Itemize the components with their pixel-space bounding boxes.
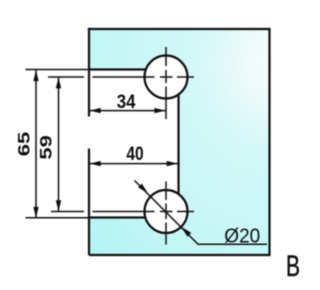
svg-text:B: B [286, 251, 300, 283]
glass panel fill [89, 29, 270, 255]
clamp bottom edge [89, 216, 145, 218]
diameter leader diagonal [135, 181, 268, 245]
dim 65 top arrow [33, 70, 38, 81]
extension line bottom edge (left) [26, 217, 90, 219]
clamp right edge [177, 95, 179, 195]
svg-text:65: 65 [15, 132, 34, 157]
hole circle top [145, 56, 188, 99]
leader arrow lower-right [182, 227, 192, 237]
dimension 34 line [89, 110, 166, 112]
glass panel border (top,right,bottom) [88, 29, 270, 255]
svg-text:34: 34 [117, 91, 137, 112]
dim 65 bottom arrow [33, 207, 38, 218]
center lines bottom hole [51, 182, 194, 245]
dim 34 left arrow [90, 108, 101, 113]
dim 40 left arrow [90, 161, 101, 166]
leader arrow upper-left [138, 184, 148, 194]
hole boss bottom fill [145, 190, 188, 233]
glass/clamp left edge lower segment [88, 149, 90, 256]
clamp body fill (white) [89, 70, 179, 218]
dimension 59 line [58, 77, 60, 211]
dimension 40 line [89, 163, 178, 165]
dim 59 bottom arrow [56, 200, 61, 211]
clamp top edge [89, 68, 146, 70]
svg-text:Ø20: Ø20 [224, 225, 260, 248]
hole boss top fill [145, 56, 188, 99]
hole circle bottom [145, 190, 188, 233]
center lines top hole [48, 47, 194, 119]
dimension 65 line [35, 70, 37, 218]
dim 34 right arrow [154, 108, 165, 113]
dim 40 right arrow [167, 161, 178, 166]
svg-text:59: 59 [37, 135, 56, 160]
extension line top edge (left) [26, 69, 90, 71]
dim 59 top arrow [56, 77, 61, 88]
glass/clamp left edge upper segment [88, 28, 90, 117]
svg-text:40: 40 [126, 143, 143, 165]
